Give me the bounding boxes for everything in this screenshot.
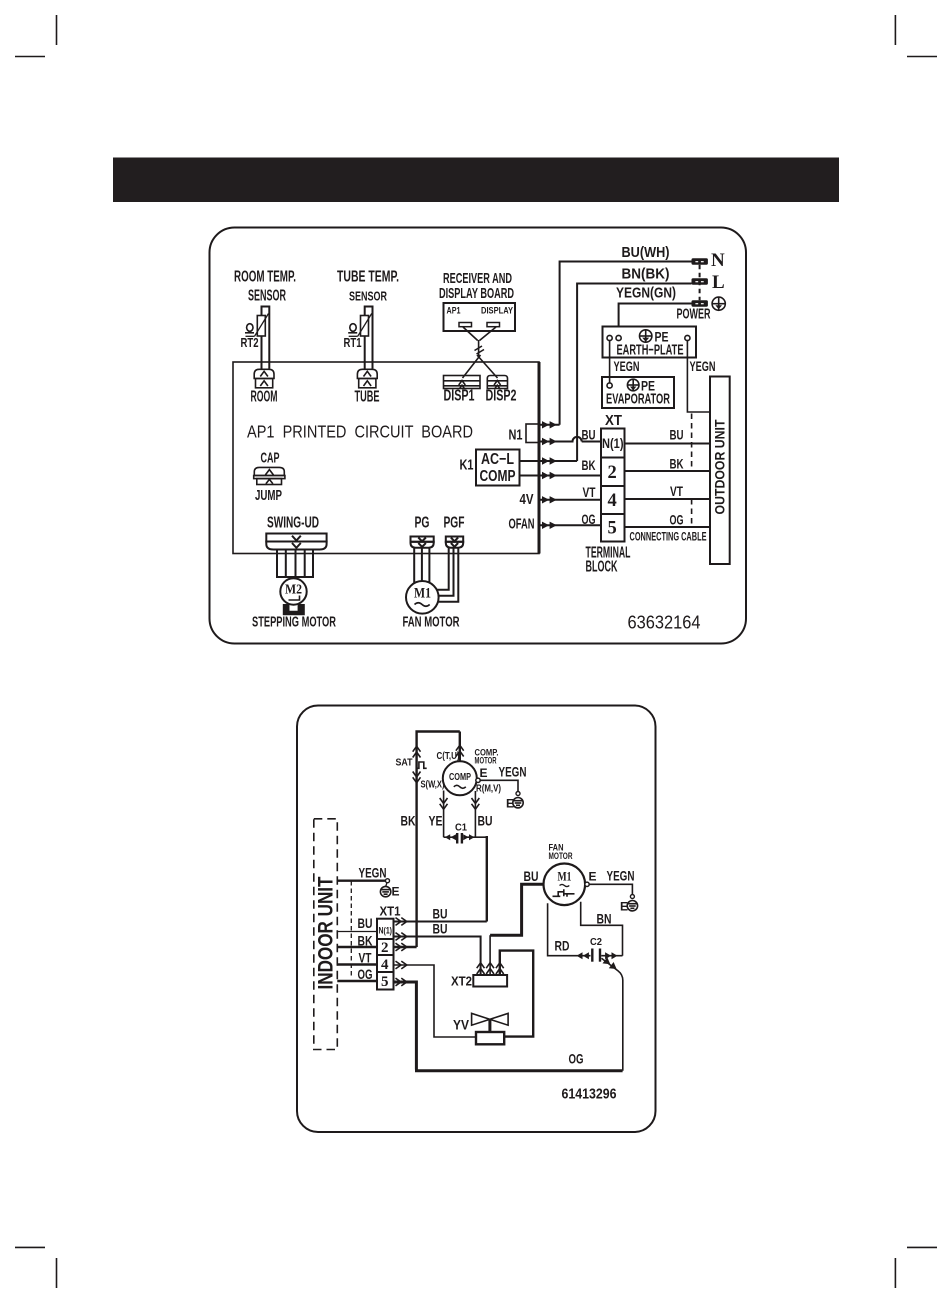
- svg-text:N(1): N(1): [602, 436, 624, 451]
- wire XT 5 to outdoor (OG): [625, 526, 711, 528]
- svg-text:DISP1: DISP1: [444, 388, 475, 405]
- earth symbol E (fan): [627, 901, 637, 911]
- svg-text:E: E: [589, 870, 597, 884]
- cable tick marks: [475, 346, 485, 354]
- wire XT1 N(1) to C1/BU: [394, 921, 487, 923]
- terminal N (black): [692, 258, 708, 265]
- svg-text:XT2: XT2: [451, 974, 472, 989]
- connector PGF: [446, 537, 463, 548]
- svg-text:YEGN: YEGN: [499, 765, 527, 780]
- wire XT1 2 to BK riser: [394, 946, 417, 948]
- svg-text:ROOM TEMP.: ROOM TEMP.: [234, 269, 296, 286]
- wire C1 to XT1 riser: [486, 836, 488, 922]
- wire M1 BN to C2: [581, 902, 623, 956]
- receiver and display board box: [444, 303, 516, 331]
- svg-text:BK: BK: [582, 458, 597, 474]
- earth symbol E (comp): [513, 798, 523, 808]
- svg-text:YEGN: YEGN: [359, 866, 387, 881]
- thermistor RT1: [348, 314, 372, 337]
- svg-text:YEGN(GN): YEGN(GN): [616, 285, 676, 302]
- svg-text:R(M,V): R(M,V): [476, 784, 501, 795]
- svg-text:BN: BN: [597, 912, 612, 927]
- svg-text:TUBE TEMP.: TUBE TEMP.: [337, 269, 399, 286]
- wire XT 4 to outdoor (VT): [625, 498, 711, 500]
- svg-text:YV: YV: [453, 1018, 469, 1033]
- svg-text:STEPPING MOTOR: STEPPING MOTOR: [252, 614, 336, 631]
- wire YEGN indoor earth: [337, 880, 387, 882]
- svg-text:C1: C1: [455, 822, 467, 834]
- svg-text:BU: BU: [582, 428, 596, 444]
- svg-text:XT: XT: [605, 413, 622, 429]
- svg-text:63632164: 63632164: [628, 613, 701, 633]
- wire C2 to OG (diagonal): [602, 958, 623, 1071]
- svg-text:OG: OG: [358, 967, 373, 982]
- svg-text:INDOOR UNIT: INDOOR UNIT: [314, 877, 338, 990]
- capacitor C2: [591, 949, 593, 962]
- wire N1 pin1 to N (BU): [539, 262, 692, 425]
- wire XT1 5 to OG line: [394, 982, 417, 1070]
- svg-text:BU: BU: [433, 922, 448, 937]
- svg-text:AP1 PRINTED CIRCUIT BOARD: AP1 PRINTED CIRCUIT BOARD: [247, 422, 473, 442]
- svg-text:C2: C2: [590, 936, 602, 948]
- terminal E on COMP: [476, 778, 480, 782]
- dashed cable line: [691, 414, 693, 472]
- svg-text:YEGN: YEGN: [614, 358, 640, 374]
- diagram 2 outer border: [297, 706, 656, 1133]
- wire K1 COMP to terminal 2: [520, 475, 602, 477]
- svg-text:ROOM: ROOM: [251, 389, 278, 406]
- svg-text:BK: BK: [670, 457, 685, 473]
- svg-text:E: E: [392, 885, 400, 899]
- svg-text:E: E: [480, 766, 488, 780]
- dashed link between power terminals: [699, 265, 701, 300]
- svg-text:BU(WH): BU(WH): [622, 244, 670, 261]
- svg-text:SWING-UD: SWING-UD: [267, 515, 319, 532]
- svg-text:N: N: [711, 250, 725, 271]
- wire XT 2 to outdoor (BK): [625, 470, 711, 472]
- wire XT N(1) to outdoor (BU): [625, 443, 711, 445]
- svg-text:EVAPORATOR: EVAPORATOR: [606, 391, 670, 408]
- svg-text:CAP: CAP: [261, 450, 280, 467]
- svg-text:OFAN: OFAN: [509, 517, 535, 533]
- svg-text:YEGN: YEGN: [690, 358, 716, 374]
- wire OFAN to terminal 5: [539, 524, 601, 526]
- svg-text:MOTOR: MOTOR: [549, 851, 573, 862]
- svg-text:4: 4: [381, 957, 389, 973]
- wire BK into XT1: [337, 946, 377, 948]
- BK riser wire: [417, 732, 460, 948]
- svg-text:COMP: COMP: [449, 771, 471, 783]
- svg-text:POWER: POWER: [677, 307, 711, 323]
- indoor unit dashed box: [314, 819, 338, 1050]
- earth-plate pin circles: [607, 335, 612, 340]
- svg-text:CONNECTING CABLE: CONNECTING CABLE: [630, 531, 707, 544]
- valve YV coil box: [476, 1032, 504, 1044]
- wire X to DISP1/DISP2: [463, 355, 498, 378]
- sensor RT2 loop wires: [262, 307, 270, 369]
- svg-text:N1: N1: [509, 428, 523, 444]
- board connector tab left: [459, 323, 472, 327]
- fan motor cable from PGF: [437, 548, 458, 602]
- wire V from tabs: [463, 327, 496, 341]
- svg-text:L: L: [712, 272, 725, 293]
- svg-text:VT: VT: [583, 485, 596, 501]
- terminal block XT box: [601, 429, 625, 542]
- svg-text:S(W,X): S(W,X): [421, 780, 445, 791]
- svg-text:OUTDOOR UNIT: OUTDOOR UNIT: [711, 419, 727, 514]
- svg-text:BN(BK): BN(BK): [622, 266, 670, 283]
- motor M1 circle: [406, 581, 439, 614]
- svg-text:OG: OG: [569, 1052, 584, 1067]
- terminal block XT1: [377, 919, 394, 990]
- wire YEGN to earth terminal: [619, 304, 692, 327]
- earth symbol PE (evaporator): [627, 379, 639, 391]
- evaporator box: [602, 377, 674, 408]
- svg-text:E: E: [620, 900, 628, 914]
- svg-text:DISPLAY BOARD: DISPLAY BOARD: [439, 285, 514, 302]
- wire N1 pin2 to terminal N(1) with hop: [539, 437, 601, 442]
- capacitor C1: [456, 833, 458, 844]
- wire earth-plate to evaporator: [609, 341, 611, 383]
- connector TUBE: [357, 369, 377, 388]
- svg-text:YEGN: YEGN: [607, 869, 635, 884]
- svg-text:BU: BU: [478, 814, 493, 829]
- svg-text:COMP: COMP: [480, 468, 516, 485]
- svg-text:BU: BU: [433, 907, 448, 922]
- connector N1: [526, 424, 539, 443]
- terminal XT2: [473, 975, 507, 987]
- stepping motor base: [283, 604, 305, 615]
- earth symbol PE (earth-plate): [640, 330, 652, 342]
- wire COMP S down: [443, 791, 445, 838]
- svg-text:C(T,U): C(T,U): [437, 751, 460, 762]
- wire 4V to terminal 4: [539, 499, 601, 501]
- outdoor unit box: [710, 377, 730, 565]
- wire earth-plate right pin to outdoor unit: [687, 341, 710, 412]
- wire BU into XT1: [337, 931, 377, 933]
- compressor COMP circle: [443, 761, 477, 795]
- relay K1 box: [476, 450, 520, 486]
- svg-text:SENSOR: SENSOR: [248, 288, 286, 305]
- svg-text:TUBE: TUBE: [355, 389, 380, 406]
- wire cable drop: [478, 340, 480, 356]
- terminal L (black): [692, 278, 708, 285]
- connector ROOM: [254, 369, 274, 388]
- svg-text:OG: OG: [670, 513, 684, 529]
- wire XT2-3 riser: [500, 951, 533, 1037]
- fan motor M1 circle: [544, 864, 586, 906]
- svg-text:DISPLAY: DISPLAY: [481, 306, 513, 316]
- svg-text:PG: PG: [415, 515, 430, 532]
- AP1 printed circuit board box: [233, 362, 539, 554]
- svg-text:SENSOR: SENSOR: [349, 289, 387, 304]
- earth symbol E (indoor): [380, 883, 390, 897]
- svg-text:AC−L: AC−L: [481, 451, 514, 468]
- terminal E on M1: [585, 882, 589, 886]
- wire OG bottom: [415, 1069, 623, 1072]
- svg-text:N(1): N(1): [379, 926, 393, 937]
- wire OG into XT1: [337, 980, 377, 982]
- terminal earth (black): [692, 300, 708, 307]
- connector PG: [411, 537, 434, 548]
- svg-text:61413296: 61413296: [562, 1086, 617, 1103]
- svg-text:OG: OG: [582, 512, 596, 528]
- svg-text:K1: K1: [460, 458, 474, 474]
- sensor RT1 loop wires: [365, 307, 373, 369]
- svg-text:MOTOR: MOTOR: [475, 756, 497, 767]
- svg-text:RD: RD: [555, 939, 570, 954]
- svg-text:VT: VT: [670, 484, 683, 500]
- wire COMP R down: [474, 791, 476, 837]
- wire XT1 N(1) to XT2-1: [394, 937, 481, 976]
- svg-text:EARTH−PLATE: EARTH−PLATE: [617, 342, 684, 359]
- svg-text:XT1: XT1: [380, 904, 401, 919]
- earth symbol at power: [712, 297, 725, 310]
- connector CAP/JUMP: [254, 467, 285, 484]
- connector DISP1: [444, 376, 481, 389]
- thermistor RT2: [245, 314, 269, 337]
- wire K1 AC-L to L (BN): [520, 284, 692, 462]
- svg-text:5: 5: [381, 974, 389, 990]
- svg-text:YE: YE: [429, 814, 443, 829]
- svg-text:2: 2: [381, 940, 389, 956]
- connector SWING-UD: [266, 534, 326, 550]
- svg-text:BK: BK: [401, 814, 416, 829]
- svg-text:FAN MOTOR: FAN MOTOR: [403, 614, 460, 631]
- svg-text:2: 2: [608, 463, 617, 483]
- evaporator pin circle: [607, 383, 612, 388]
- stepping motor ribbon cable: [277, 550, 313, 578]
- wire COMP E to earth: [480, 780, 518, 791]
- title bar: [113, 158, 839, 203]
- svg-text:RT1: RT1: [344, 335, 362, 350]
- wire XT1 4 to YV: [394, 965, 477, 1037]
- svg-text:BU: BU: [670, 428, 684, 444]
- svg-text:5: 5: [608, 519, 617, 539]
- protector symbol in M1: [553, 889, 575, 897]
- svg-text:BU: BU: [524, 869, 539, 884]
- svg-text:M1: M1: [414, 586, 431, 602]
- valve YV stem: [488, 1019, 491, 1032]
- svg-text:M2: M2: [285, 582, 302, 597]
- wire top to COMP C: [459, 732, 461, 762]
- wire M1 E to earth: [589, 884, 632, 894]
- earth-plate box: [603, 327, 697, 358]
- diagram 1 outer border: [210, 228, 747, 644]
- svg-text:BLOCK: BLOCK: [586, 559, 618, 576]
- connector DISP2: [487, 376, 507, 389]
- wire VT into XT1: [337, 963, 377, 965]
- svg-text:M1: M1: [558, 870, 572, 884]
- fan motor cable from PG: [414, 548, 429, 584]
- wire M1 RD to C2: [548, 903, 591, 955]
- dashed boundary line: [350, 881, 352, 977]
- svg-text:RT2: RT2: [241, 335, 259, 350]
- svg-text:BU: BU: [358, 916, 373, 931]
- svg-text:SAT: SAT: [396, 757, 413, 769]
- board connector tab right: [487, 323, 500, 327]
- svg-text:AP1: AP1: [447, 306, 461, 316]
- svg-text:4V: 4V: [520, 492, 534, 508]
- svg-text:JUMP: JUMP: [255, 487, 282, 504]
- valve YV bowtie: [472, 1013, 509, 1025]
- svg-text:DISP2: DISP2: [486, 388, 517, 405]
- svg-text:E: E: [506, 797, 514, 811]
- overload protector SAT: [417, 762, 427, 768]
- svg-text:VT: VT: [359, 951, 372, 966]
- svg-text:PGF: PGF: [444, 515, 465, 532]
- svg-text:4: 4: [608, 491, 617, 511]
- wire M1 BU to XT2-2: [490, 884, 543, 935]
- motor M2 circle: [280, 578, 306, 604]
